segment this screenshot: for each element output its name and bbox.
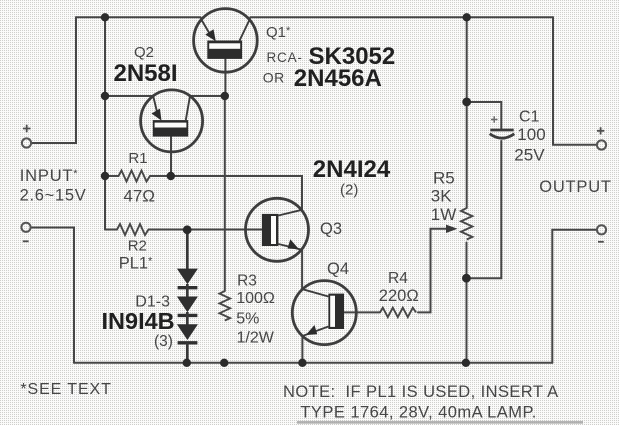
wire R4 corner to wiper — [418, 229, 446, 313]
diode D1 — [177, 230, 198, 288]
svg-text:R3: R3 — [237, 272, 257, 289]
wire R2 base row — [158, 229, 262, 231]
svg-text:Q3: Q3 — [320, 220, 342, 238]
svg-text:25V: 25V — [514, 145, 545, 164]
terminal output plus — [597, 140, 606, 149]
node dot Q2 row right — [221, 92, 229, 100]
transistor Q2 — [141, 90, 203, 152]
transistor Q3 — [246, 198, 309, 261]
wire bottom rail — [74, 362, 552, 364]
svg-text:(2): (2) — [340, 182, 358, 199]
minus sign input — [23, 240, 29, 242]
node dot R2 right — [183, 225, 192, 234]
minus sign output — [598, 241, 604, 243]
svg-text:Q1*: Q1* — [266, 24, 291, 41]
svg-text:1W: 1W — [431, 205, 457, 224]
wire output minus branch — [552, 230, 596, 363]
wire Q1 base drop — [224, 59, 226, 96]
svg-text:220Ω: 220Ω — [379, 287, 419, 305]
wire input minus lead — [32, 228, 75, 363]
wire R5 vertical bus — [466, 17, 468, 363]
resistor R1 — [105, 171, 171, 182]
svg-text:Q4: Q4 — [327, 260, 349, 278]
scan artifact bar — [297, 421, 583, 424]
node dot rail Q4 — [298, 359, 306, 367]
svg-text:OUTPUT: OUTPUT — [539, 178, 612, 196]
node dot rail diodes — [183, 359, 191, 367]
wire R3 bus vertical — [224, 96, 226, 291]
potentiometer R5 — [461, 208, 472, 239]
svg-text:100: 100 — [517, 125, 545, 144]
plus sign output — [597, 127, 604, 134]
wire C1 bottom lead — [466, 141, 501, 278]
transistor Q4 — [292, 281, 356, 345]
diode D3 — [177, 312, 198, 363]
wire top rail — [76, 16, 553, 18]
svg-text:R1: R1 — [128, 150, 147, 167]
plus sign input — [23, 125, 31, 132]
node dot C1 bottom — [462, 274, 471, 283]
svg-text:2.6~15V: 2.6~15V — [20, 187, 87, 205]
wire C1 top branch — [467, 102, 502, 129]
node dot rail R3 — [220, 359, 228, 367]
svg-text:TYPE 1764, 28V, 40mA LAMP.: TYPE 1764, 28V, 40mA LAMP. — [300, 404, 536, 422]
potentiometer R5 wiper arrow — [446, 225, 458, 233]
svg-text:R2: R2 — [128, 237, 147, 254]
diode D2 — [177, 284, 198, 315]
svg-text:IN9I4B: IN9I4B — [102, 308, 175, 334]
svg-text:2N58I: 2N58I — [114, 60, 178, 87]
capacitor C1 — [490, 116, 515, 138]
wire Q4 emitter drop — [301, 336, 303, 363]
node dot Q2 row left — [101, 92, 109, 100]
svg-text:47Ω: 47Ω — [123, 186, 155, 205]
svg-text:100Ω: 100Ω — [236, 290, 275, 307]
wire R1 row to Q3 collector — [158, 176, 302, 210]
node dot C1 top — [462, 98, 471, 107]
svg-text:5%: 5% — [236, 310, 259, 327]
resistor R2 — [105, 224, 182, 235]
svg-text:2N456A: 2N456A — [294, 65, 382, 92]
node dot R1 left — [101, 172, 109, 180]
svg-text:3K: 3K — [431, 187, 452, 206]
svg-text:*SEE TEXT: *SEE TEXT — [20, 381, 111, 398]
svg-text:NOTE: IF PL1 IS USED, INSERT: NOTE: IF PL1 IS USED, INSERT A — [283, 383, 559, 401]
resistor R3 — [220, 291, 231, 320]
svg-text:INPUT*: INPUT* — [20, 167, 79, 185]
wire input plus lead — [32, 17, 76, 143]
svg-text:R4: R4 — [388, 270, 408, 287]
wire Q2 base drop — [170, 137, 172, 176]
wire Q2 collector row — [105, 95, 225, 97]
svg-text:C1: C1 — [519, 109, 540, 126]
svg-text:RCA-: RCA- — [267, 50, 303, 65]
node dot top rail R5 — [463, 13, 471, 21]
svg-text:2N4I24: 2N4I24 — [313, 156, 391, 183]
transistor Q1 — [194, 9, 258, 73]
svg-text:(3): (3) — [154, 333, 173, 350]
node dot rail R5 — [462, 359, 470, 367]
node dot R1 right — [167, 172, 175, 180]
svg-text:R5: R5 — [433, 168, 455, 187]
wire Q4 base row — [344, 311, 380, 313]
terminal output minus — [597, 225, 606, 234]
svg-text:Q2: Q2 — [134, 44, 154, 61]
wire output plus branch — [553, 17, 597, 145]
wire Q3 emitter to Q4 collector — [301, 250, 303, 289]
wire left vertical bus — [104, 17, 106, 229]
svg-text:OR: OR — [263, 70, 285, 86]
svg-text:PL1*: PL1* — [119, 255, 153, 273]
terminal input plus — [22, 138, 31, 147]
resistor R4 — [380, 308, 416, 317]
terminal input minus — [21, 223, 30, 232]
svg-text:1/2W: 1/2W — [237, 330, 275, 347]
node dot top rail left — [101, 13, 109, 21]
